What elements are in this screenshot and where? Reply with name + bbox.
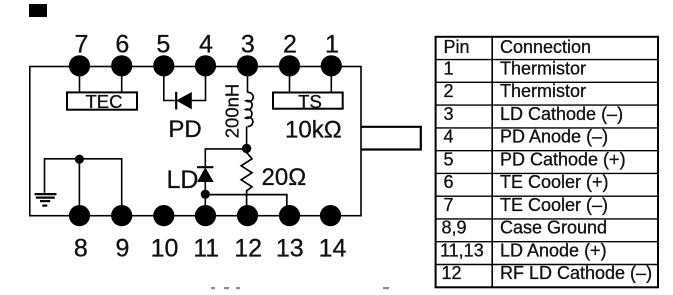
svg-text:7: 7 (75, 31, 89, 59)
junction node dot (pin3 branch) (242, 144, 251, 153)
pin 14 (320, 205, 341, 226)
table row pin 7 (444, 195, 609, 215)
table row pins 11,13 (440, 240, 607, 260)
pin 6 (111, 55, 132, 76)
svg-text:14: 14 (319, 235, 347, 263)
table row pin 3 (444, 104, 624, 124)
svg-text:11,13: 11,13 (440, 240, 484, 260)
pin 1 (321, 55, 342, 76)
svg-text:2: 2 (283, 31, 297, 59)
wire pin7 stub to TEC (79, 70, 81, 92)
wire resistor to pin 12 (246, 194, 248, 208)
laser diode LD triangle (198, 168, 213, 181)
svg-text:LD Anode (+): LD Anode (+) (500, 240, 607, 260)
table row pin 5 (444, 149, 626, 169)
wire pin3 to inductor (247, 70, 249, 93)
wire pin2 stub to TS (289, 70, 291, 93)
svg-text:200nH: 200nH (222, 84, 243, 139)
svg-text:5: 5 (156, 31, 170, 59)
table column divider (491, 37, 493, 287)
svg-text:7: 7 (444, 195, 454, 215)
svg-text:1: 1 (444, 58, 454, 78)
pin 11 (195, 205, 216, 226)
pin 13 (279, 205, 300, 226)
svg-text:PD: PD (168, 116, 201, 143)
svg-text:11: 11 (193, 235, 219, 263)
svg-text:Thermistor: Thermistor (500, 58, 586, 78)
table row pins 8,9 (442, 218, 608, 238)
svg-text:Pin: Pin (444, 37, 470, 57)
svg-text:12: 12 (442, 263, 462, 283)
svg-text:12: 12 (234, 235, 262, 263)
ground symbol (35, 194, 57, 206)
wire junction to pin 13 (205, 195, 286, 208)
svg-text:10kΩ: 10kΩ (285, 117, 342, 144)
svg-text:2: 2 (444, 81, 454, 101)
pin 5 (153, 55, 174, 76)
photodiode PD cathode bar (175, 92, 177, 110)
svg-text:6: 6 (115, 31, 129, 59)
svg-text:9: 9 (115, 235, 129, 263)
wire junction to LD branch (205, 149, 246, 166)
package outline (30, 67, 361, 216)
ground wire horizontal (45, 159, 122, 208)
svg-text:TEC: TEC (86, 91, 123, 112)
wire pin6 stub to TEC (121, 70, 123, 92)
resistor R1 zigzag (241, 153, 252, 194)
wire junction to pin 8 (78, 159, 80, 208)
pin 3 (237, 55, 258, 76)
svg-text:TE Cooler (–): TE Cooler (–) (500, 195, 608, 215)
svg-text:1: 1 (325, 31, 339, 59)
table row pin 2 (444, 81, 587, 101)
pin 4 (195, 55, 216, 76)
wire inductor to junction (246, 127, 248, 149)
svg-text:RF LD Cathode (–): RF LD Cathode (–) (500, 263, 652, 283)
black artifact box top-left (29, 4, 47, 17)
svg-text:4: 4 (199, 31, 213, 59)
svg-text:5: 5 (444, 149, 454, 169)
tab connector on right edge (361, 127, 421, 150)
svg-text:4: 4 (444, 127, 454, 147)
svg-text:PD Anode (–): PD Anode (–) (500, 127, 608, 147)
svg-text:20Ω: 20Ω (262, 164, 307, 191)
inductor L1 coil (246, 92, 254, 126)
svg-text:10: 10 (151, 235, 179, 263)
table row pin 4 (444, 127, 609, 147)
pin 7 (69, 55, 90, 76)
table row pin 1 (444, 58, 587, 78)
photodiode PD triangle (177, 93, 191, 109)
table row pin 12 (442, 263, 653, 283)
TEC block (67, 92, 137, 109)
svg-text:TE Cooler (+): TE Cooler (+) (500, 172, 609, 192)
table row pin 6 (444, 172, 609, 192)
wire pin5 drop to photodiode (164, 70, 175, 101)
wire junction to pin 11 (204, 194, 206, 208)
table outer border (436, 37, 658, 287)
svg-text:TS: TS (298, 91, 322, 112)
svg-text:8,9: 8,9 (442, 218, 467, 238)
svg-text:3: 3 (444, 104, 454, 124)
svg-text:LD Cathode (–): LD Cathode (–) (500, 104, 623, 124)
wire photodiode to pin4 (191, 70, 205, 101)
TS block (thermistor) (273, 93, 343, 109)
junction node dot (ground/pin8) (75, 155, 84, 164)
svg-text:PD Cathode (+): PD Cathode (+) (500, 149, 626, 169)
svg-text:Case Ground: Case Ground (500, 218, 607, 238)
pin 2 (279, 55, 300, 76)
svg-text:8: 8 (74, 235, 88, 263)
svg-text:Connection: Connection (500, 37, 591, 57)
table header row (444, 37, 592, 57)
svg-text:13: 13 (276, 235, 304, 263)
wire pin1 stub to TS (330, 70, 332, 93)
pin 10 (153, 205, 174, 226)
svg-text:3: 3 (241, 31, 255, 59)
pin 12 (237, 205, 258, 226)
table row lines (436, 60, 658, 265)
caption fragment cut at bottom edge (211, 287, 389, 289)
svg-text:Thermistor: Thermistor (500, 81, 586, 101)
pin 8 (69, 205, 90, 226)
junction node dot (pin 11) (201, 190, 210, 199)
wire LD to junction dot (204, 182, 206, 194)
svg-text:LD: LD (167, 166, 199, 194)
pin 9 (111, 205, 132, 226)
svg-text:6: 6 (444, 172, 454, 192)
laser diode LD cathode bar (197, 166, 213, 168)
